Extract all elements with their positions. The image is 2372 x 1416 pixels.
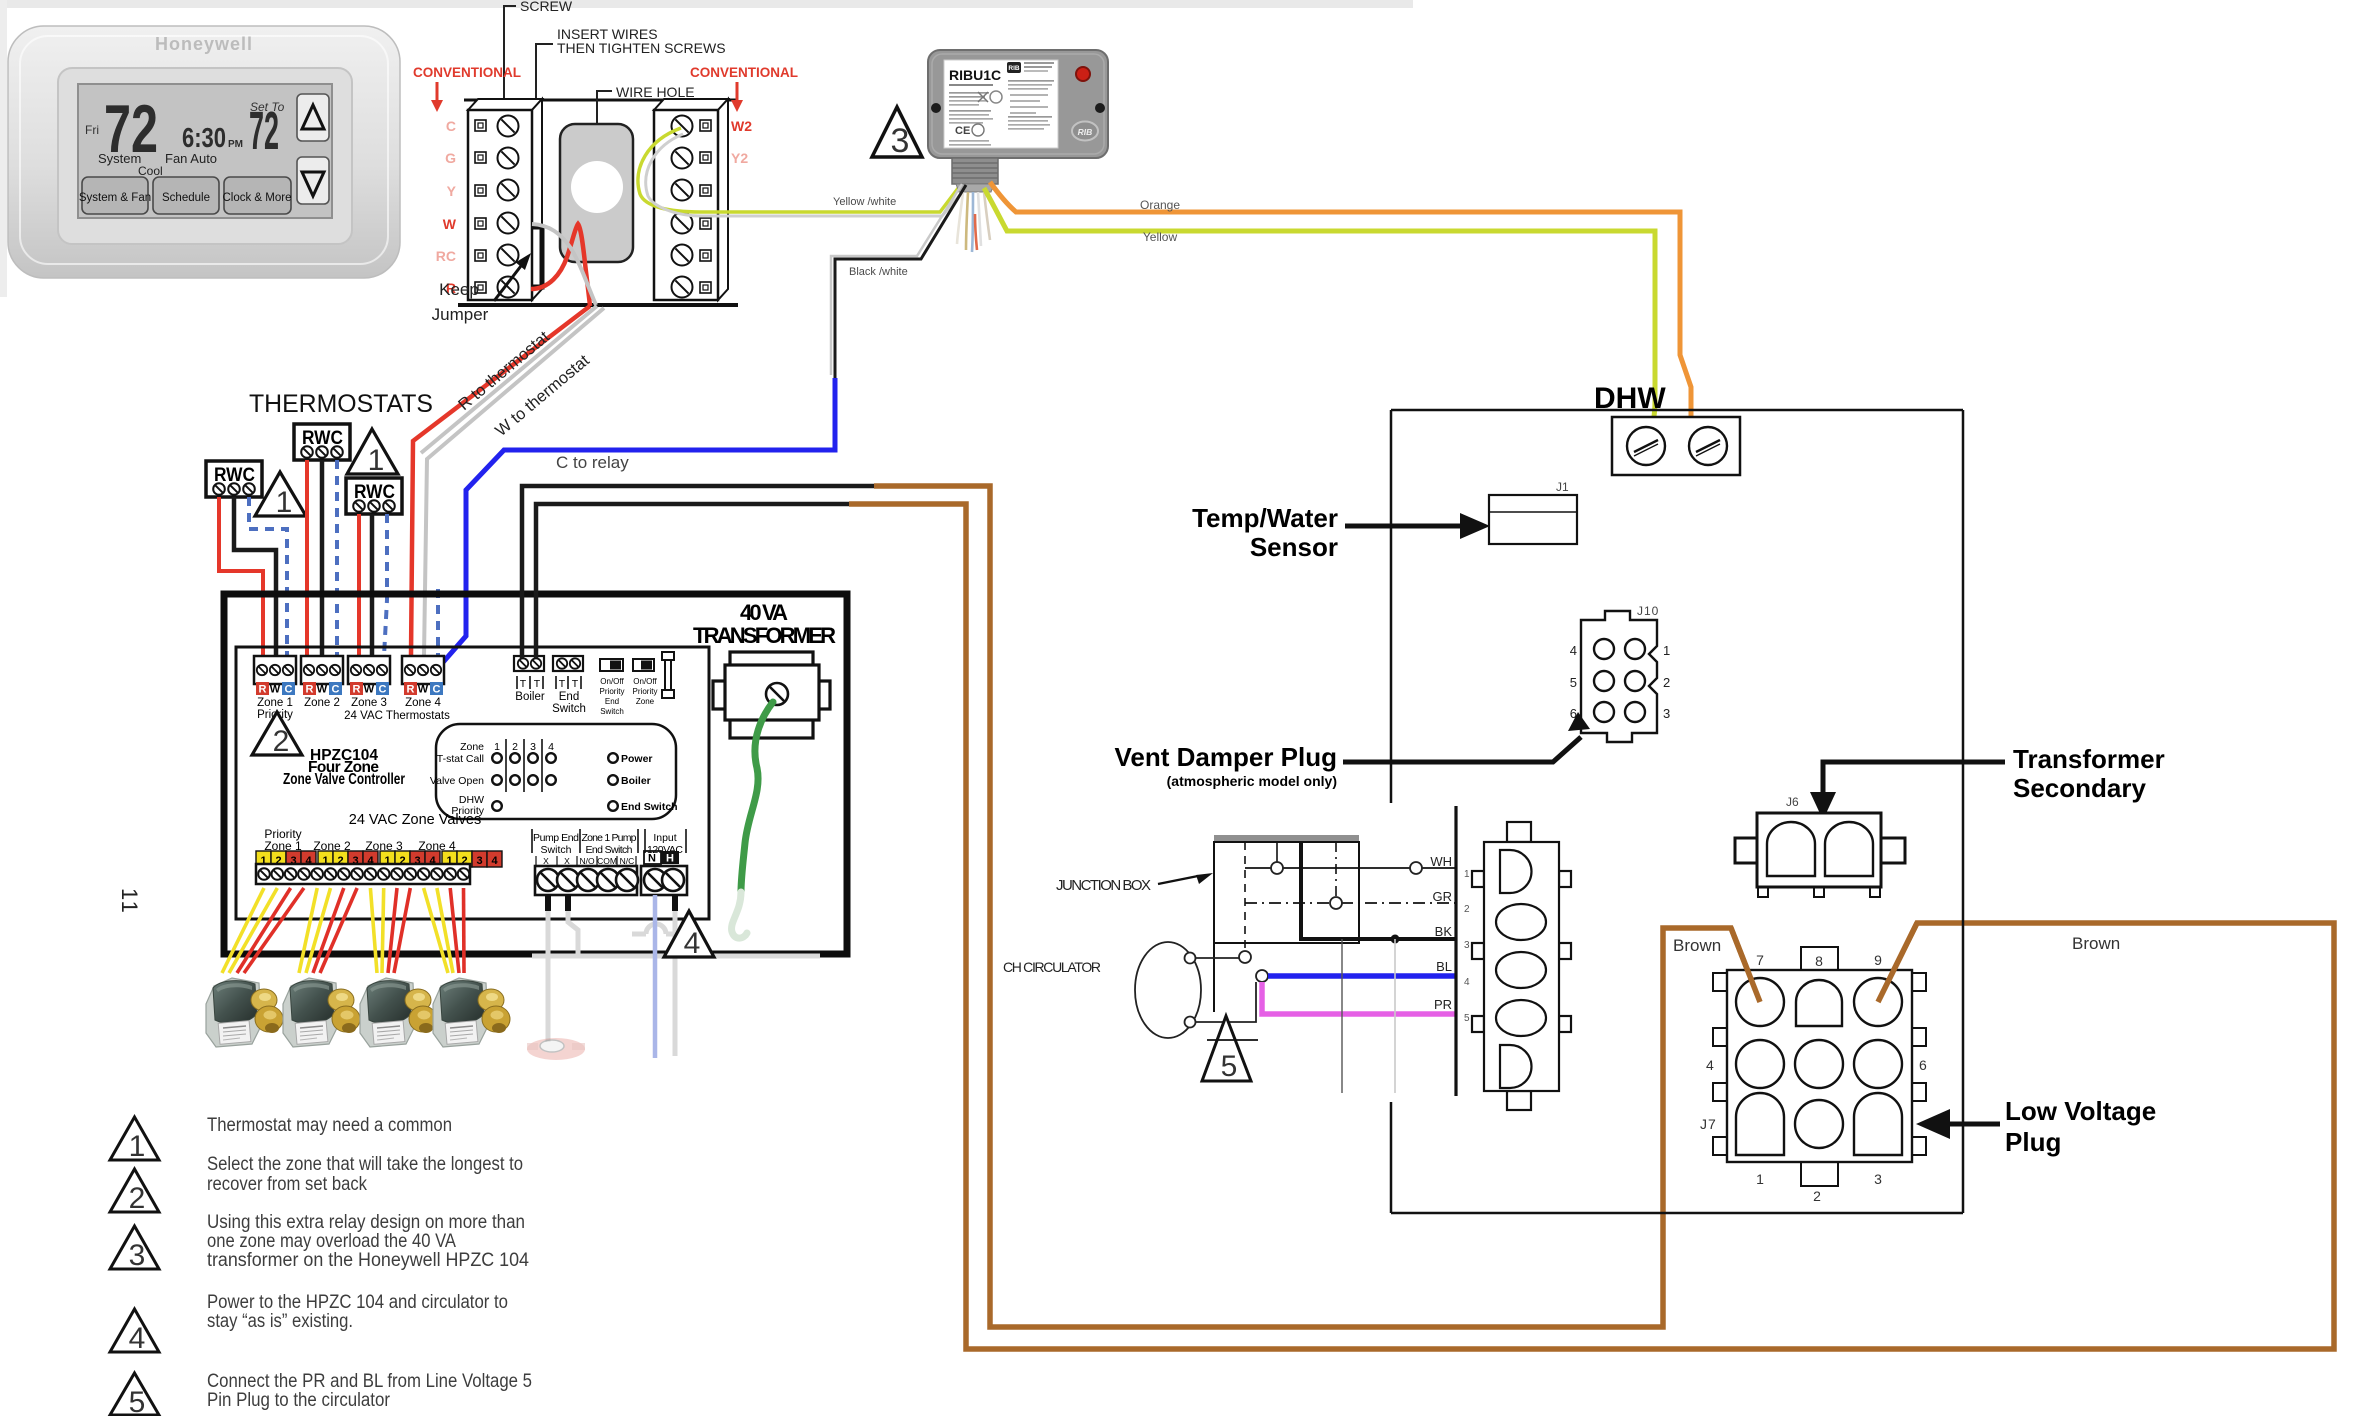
svg-text:Connect the PR and BL from Lin: Connect the PR and BL from Line Voltage … bbox=[207, 1371, 532, 1392]
svg-text:J6: J6 bbox=[1786, 795, 1799, 809]
svg-text:T-stat Call: T-stat Call bbox=[437, 753, 484, 765]
svg-text:1: 1 bbox=[1756, 1171, 1764, 1187]
svg-text:Zone 1: Zone 1 bbox=[257, 697, 293, 709]
svg-text:End Switch: End Switch bbox=[621, 801, 678, 813]
svg-text:Zone 4: Zone 4 bbox=[405, 697, 441, 709]
svg-text:3: 3 bbox=[129, 1239, 146, 1272]
svg-text:Transformer: Transformer bbox=[2013, 744, 2165, 774]
zone valve terminal number strip 1 bbox=[256, 851, 316, 867]
zone valve 2 (photo) bbox=[283, 978, 360, 1047]
R W C colored legend zone1 bbox=[256, 682, 295, 696]
svg-text:3: 3 bbox=[1663, 706, 1670, 721]
svg-text:RIBU1C: RIBU1C bbox=[949, 67, 1001, 83]
svg-text:N: N bbox=[648, 853, 656, 865]
svg-text:(atmospheric model only): (atmospheric model only) bbox=[1167, 773, 1337, 789]
wire BK thick bbox=[1301, 842, 1456, 939]
svg-text:C: C bbox=[433, 684, 441, 696]
low voltage plug J7 bbox=[1700, 947, 1927, 1204]
wire zone4 C blue dashed stub bbox=[436, 589, 440, 660]
green ground wire bbox=[741, 702, 773, 892]
svg-text:Zone: Zone bbox=[460, 741, 484, 753]
svg-text:Y2: Y2 bbox=[731, 150, 748, 166]
svg-text:5: 5 bbox=[1221, 1050, 1238, 1083]
T T Boiler labels bbox=[517, 676, 543, 689]
wire brown B to J7 pin 9 bbox=[849, 504, 2334, 1349]
svg-text:Priority: Priority bbox=[633, 687, 658, 696]
svg-text:Orange: Orange bbox=[1140, 198, 1180, 212]
svg-text:5: 5 bbox=[1570, 675, 1577, 690]
svg-text:WH: WH bbox=[1430, 854, 1452, 869]
svg-text:recover from set back: recover from set back bbox=[207, 1174, 367, 1195]
triangle note 1 legend bbox=[110, 1117, 159, 1160]
svg-text:N/O: N/O bbox=[579, 856, 595, 866]
relay RIBU1C body bbox=[928, 50, 1108, 158]
svg-text:CONVENTIONAL: CONVENTIONAL bbox=[690, 65, 798, 80]
svg-text:Power: Power bbox=[621, 753, 653, 765]
svg-text:3: 3 bbox=[530, 741, 536, 753]
zone valve 4 (photo) bbox=[433, 978, 510, 1047]
transformer TR1 symbol bbox=[713, 652, 830, 738]
svg-text:7: 7 bbox=[1756, 952, 1764, 968]
svg-text:2: 2 bbox=[273, 725, 290, 758]
svg-text:R: R bbox=[306, 684, 314, 696]
svg-text:Pin Plug to the circulator: Pin Plug to the circulator bbox=[207, 1390, 391, 1411]
svg-text:24 VAC Zone Valves: 24 VAC Zone Valves bbox=[349, 812, 481, 828]
zone valve 1 (photo) bbox=[206, 978, 283, 1047]
svg-text:Yellow /white: Yellow /white bbox=[833, 196, 896, 208]
svg-text:R: R bbox=[353, 684, 361, 696]
triangle note 3 (relay) bbox=[872, 107, 922, 157]
triangle note 5 (PR-BL) bbox=[1202, 1016, 1251, 1081]
HPZC104 outer enclosure box bbox=[224, 594, 847, 954]
svg-text:Select the zone that will take: Select the zone that will take the longe… bbox=[207, 1154, 523, 1175]
svg-text:one zone may overload the 40 V: one zone may overload the 40 VA bbox=[207, 1231, 456, 1252]
svg-text:4: 4 bbox=[129, 1322, 146, 1355]
wire brown A to J7 pin 7 bbox=[874, 486, 1760, 1327]
wire Yellow from relay to DHW bbox=[984, 188, 1655, 436]
zone valve terminal number strip 2 bbox=[318, 851, 378, 867]
svg-text:Thermostat may need a common: Thermostat may need a common bbox=[207, 1115, 452, 1136]
thermostat T-stat photo (Honeywell touchscreen) bbox=[8, 26, 400, 278]
svg-text:1: 1 bbox=[129, 1130, 146, 1163]
wire C to relay (blue) bbox=[438, 378, 835, 668]
wallplate bottom edge bbox=[458, 303, 738, 307]
svg-text:2: 2 bbox=[1464, 904, 1470, 915]
wire boiler TT to brown A (black portion) bbox=[522, 486, 874, 658]
svg-text:8: 8 bbox=[1815, 953, 1823, 969]
svg-text:Temp/Water: Temp/Water bbox=[1192, 503, 1338, 533]
priority zone slide switch SW2 bbox=[633, 659, 654, 671]
svg-text:3: 3 bbox=[476, 855, 482, 867]
faint circulator pump photo bbox=[527, 1038, 585, 1060]
svg-text:N/C: N/C bbox=[620, 856, 635, 866]
triangle note 2 legend bbox=[110, 1169, 159, 1212]
triangle note 2 (controller) bbox=[252, 712, 302, 755]
wire boiler TT to brown B (black portion) bbox=[536, 504, 849, 658]
svg-text:GR: GR bbox=[1433, 889, 1453, 904]
svg-text:3: 3 bbox=[1464, 940, 1470, 951]
svg-text:Black /white: Black /white bbox=[849, 266, 908, 278]
svg-text:2: 2 bbox=[1663, 675, 1670, 690]
wire WH bbox=[1245, 867, 1456, 869]
svg-text:6: 6 bbox=[1919, 1057, 1927, 1073]
svg-text:4: 4 bbox=[548, 741, 554, 753]
svg-text:RC: RC bbox=[436, 248, 456, 264]
svg-text:X: X bbox=[564, 856, 570, 866]
svg-text:BK: BK bbox=[1435, 924, 1453, 939]
svg-text:stay “as is” existing.: stay “as is” existing. bbox=[207, 1311, 353, 1332]
junction box bbox=[1214, 835, 1359, 1012]
svg-text:G: G bbox=[445, 150, 456, 166]
svg-text:C: C bbox=[446, 118, 456, 134]
svg-text:Secondary: Secondary bbox=[2013, 773, 2146, 803]
triangle note 1 (second) bbox=[347, 429, 398, 474]
thin verticals below BK bbox=[1341, 939, 1343, 1093]
svg-text:RIB: RIB bbox=[1008, 65, 1020, 72]
svg-text:Zone Valve Controller: Zone Valve Controller bbox=[283, 771, 405, 788]
svg-text:5: 5 bbox=[129, 1386, 146, 1416]
end switch T-T terminal block bbox=[553, 656, 583, 671]
existing lavender neutral wire bbox=[653, 895, 658, 1058]
svg-text:2: 2 bbox=[1813, 1188, 1821, 1204]
wire zone3 W black bbox=[370, 514, 375, 656]
pump end switch screw strip bbox=[535, 866, 638, 895]
svg-text:Switch: Switch bbox=[541, 844, 572, 856]
svg-text:Keep: Keep bbox=[439, 280, 479, 299]
svg-text:Pump End: Pump End bbox=[533, 832, 579, 844]
svg-text:Brown: Brown bbox=[1673, 936, 1721, 955]
svg-text:H: H bbox=[666, 853, 674, 865]
zone1 thermostat terminal block bbox=[254, 656, 296, 684]
svg-text:1: 1 bbox=[494, 741, 500, 753]
photo background band top bbox=[0, 0, 1413, 8]
pump end switch labels bbox=[532, 829, 686, 853]
svg-text:Y: Y bbox=[447, 183, 457, 199]
svg-text:3: 3 bbox=[891, 122, 910, 160]
wire PR magenta bbox=[1262, 982, 1456, 1014]
svg-text:9: 9 bbox=[1874, 952, 1882, 968]
svg-text:Fan Auto: Fan Auto bbox=[165, 151, 217, 166]
svg-text:Zone 1 Pump: Zone 1 Pump bbox=[582, 832, 637, 844]
svg-text:Boiler: Boiler bbox=[515, 691, 545, 703]
svg-text:Zone 3: Zone 3 bbox=[351, 697, 387, 709]
HPZC104 controller inner board bbox=[236, 647, 709, 919]
svg-text:Yellow: Yellow bbox=[1143, 230, 1178, 244]
input 120VAC screw strip bbox=[641, 866, 687, 895]
svg-text:T: T bbox=[534, 678, 541, 690]
wire Black/white pair from relay bbox=[835, 185, 966, 378]
svg-text:THEN TIGHTEN SCREWS: THEN TIGHTEN SCREWS bbox=[557, 40, 726, 56]
svg-text:Vent Damper Plug: Vent Damper Plug bbox=[1115, 742, 1338, 772]
svg-text:Power to the HPZC 104 and circ: Power to the HPZC 104 and circulator to bbox=[207, 1292, 508, 1313]
svg-text:End Switch: End Switch bbox=[586, 844, 633, 856]
svg-text:JUNCTION BOX: JUNCTION BOX bbox=[1056, 877, 1151, 894]
svg-text:Plug: Plug bbox=[2005, 1127, 2061, 1157]
svg-text:DHW: DHW bbox=[1594, 382, 1666, 415]
svg-text:RIB: RIB bbox=[1078, 127, 1093, 137]
wire W to thermostat (diagonal pair) bbox=[421, 306, 597, 453]
boiler T-T terminal block bbox=[514, 656, 544, 671]
wallplate top edge bbox=[464, 99, 738, 102]
svg-text:24 VAC Thermostats: 24 VAC Thermostats bbox=[344, 710, 450, 722]
triangle note 5 legend bbox=[110, 1373, 159, 1415]
svg-text:Zone: Zone bbox=[636, 697, 655, 706]
svg-text:6:30: 6:30 bbox=[182, 122, 226, 153]
svg-text:1: 1 bbox=[1663, 643, 1670, 658]
svg-text:R: R bbox=[259, 684, 267, 696]
wire zone1 R red bbox=[219, 497, 263, 656]
svg-text:W: W bbox=[317, 684, 328, 696]
5 pin line voltage plug bus bbox=[1454, 806, 1457, 1096]
svg-text:Low Voltage: Low Voltage bbox=[2005, 1096, 2156, 1126]
svg-text:W2: W2 bbox=[731, 118, 752, 134]
svg-text:W: W bbox=[443, 216, 457, 232]
svg-text:1: 1 bbox=[276, 486, 293, 519]
wire zone2 W black bbox=[320, 460, 325, 656]
svg-text:WIRE HOLE: WIRE HOLE bbox=[616, 84, 695, 100]
svg-text:C: C bbox=[332, 684, 340, 696]
zone valve terminal number strip 4 bbox=[442, 851, 502, 867]
svg-text:1: 1 bbox=[368, 444, 385, 477]
svg-text:T: T bbox=[520, 678, 527, 690]
svg-text:SCREW: SCREW bbox=[520, 0, 573, 14]
svg-text:On/Off: On/Off bbox=[633, 677, 657, 686]
svg-text:3: 3 bbox=[1874, 1171, 1882, 1187]
triangle note 3 legend bbox=[110, 1226, 159, 1269]
wire zone2 C blue dashed bbox=[335, 460, 339, 656]
svg-text:PR: PR bbox=[1434, 997, 1452, 1012]
connector J6 (transformer secondary) bbox=[1735, 795, 1905, 897]
DHW boiler enclosure box bbox=[1391, 410, 1963, 1213]
fuse F1 bbox=[662, 652, 674, 698]
svg-text:End: End bbox=[559, 691, 579, 703]
svg-text:W: W bbox=[364, 684, 375, 696]
connector J10 (vent damper) bbox=[1570, 604, 1670, 742]
R W C colored legend zone3 bbox=[350, 682, 389, 696]
wire W grey loop at wallplate bbox=[532, 224, 596, 305]
wire Orange from relay to DHW bbox=[990, 182, 1705, 437]
wire hole opening bbox=[571, 161, 623, 213]
valve zone wires red/yellow bbox=[222, 888, 464, 973]
svg-text:72: 72 bbox=[249, 101, 279, 161]
wire zone3 R red bbox=[357, 514, 361, 656]
wire zone3 C blue dashed bbox=[384, 514, 387, 656]
svg-text:5: 5 bbox=[1464, 1013, 1470, 1024]
wire hole grey plate bbox=[560, 124, 633, 262]
svg-text:Honeywell: Honeywell bbox=[155, 34, 253, 54]
triangle note 1 (first) bbox=[255, 472, 306, 516]
svg-text:System: System bbox=[98, 151, 141, 166]
svg-text:W: W bbox=[270, 684, 281, 696]
svg-text:J7: J7 bbox=[1700, 1116, 1717, 1132]
wire R to thermostat (diagonal) bbox=[411, 306, 590, 656]
svg-text:11: 11 bbox=[117, 888, 142, 915]
wire brown tail into J7 pin 7 bbox=[1731, 928, 1760, 1002]
photo background band left bbox=[0, 0, 7, 297]
wire zone1 C blue dashed bbox=[249, 497, 287, 656]
svg-text:C to relay: C to relay bbox=[556, 453, 629, 472]
wire Yellow/white pair wallplate to relay bbox=[638, 128, 962, 212]
T T End Switch labels bbox=[556, 676, 581, 689]
wire zone2 R red bbox=[305, 460, 309, 656]
svg-text:CH CIRCULATOR: CH CIRCULATOR bbox=[1003, 959, 1101, 975]
zone4 thermostat terminal block bbox=[402, 656, 444, 684]
R W C colored legend zone2 bbox=[303, 682, 342, 696]
CH circulator bbox=[1135, 942, 1201, 1038]
svg-text:C: C bbox=[379, 684, 387, 696]
svg-text:J1: J1 bbox=[1556, 480, 1569, 494]
svg-text:4: 4 bbox=[684, 927, 701, 960]
svg-text:4: 4 bbox=[491, 855, 498, 867]
svg-text:40 VA: 40 VA bbox=[740, 600, 788, 625]
svg-text:Switch: Switch bbox=[552, 703, 586, 715]
svg-text:Fri: Fri bbox=[85, 123, 99, 137]
svg-text:CE: CE bbox=[955, 125, 970, 137]
thermostat terminal box TS2 (R W C) bbox=[294, 424, 350, 460]
zone valve 3 (photo) bbox=[360, 978, 437, 1047]
keep jumper bracket on RC-R bbox=[533, 227, 542, 287]
svg-text:T: T bbox=[572, 678, 579, 690]
svg-text:Schedule: Schedule bbox=[162, 192, 210, 204]
svg-text:Input: Input bbox=[653, 832, 676, 844]
left terminal strip TB1 bbox=[468, 99, 542, 300]
svg-text:Zone 2: Zone 2 bbox=[304, 697, 340, 709]
svg-text:T: T bbox=[559, 678, 566, 690]
svg-text:1: 1 bbox=[1464, 869, 1470, 880]
svg-text:Jumper: Jumper bbox=[432, 305, 489, 324]
svg-text:COM: COM bbox=[597, 856, 617, 866]
svg-text:Using this extra relay design: Using this extra relay design on more th… bbox=[207, 1212, 525, 1233]
wire R jumper loop at wallplate bbox=[531, 224, 590, 306]
svg-text:2: 2 bbox=[129, 1182, 146, 1215]
wire GR dash-dot bbox=[1245, 902, 1456, 904]
svg-text:CONVENTIONAL: CONVENTIONAL bbox=[413, 65, 521, 80]
svg-text:BL: BL bbox=[1436, 959, 1452, 974]
right terminal strip TB2 bbox=[654, 99, 728, 300]
svg-text:4: 4 bbox=[1570, 643, 1577, 658]
priority end switch slide switch SW1 bbox=[600, 659, 623, 671]
zone2 thermostat terminal block bbox=[301, 656, 343, 684]
svg-text:J10: J10 bbox=[1637, 604, 1659, 618]
connector J1 (temp/water sensor) bbox=[1489, 480, 1577, 544]
svg-text:Switch: Switch bbox=[600, 707, 624, 716]
svg-text:TRANSFORMER: TRANSFORMER bbox=[693, 623, 836, 648]
zone3 thermostat terminal block bbox=[348, 656, 390, 684]
svg-text:R: R bbox=[407, 684, 415, 696]
svg-text:2: 2 bbox=[512, 741, 518, 753]
svg-text:4: 4 bbox=[1464, 977, 1470, 988]
svg-text:PM: PM bbox=[228, 139, 243, 150]
triangle note 4 (power as-is) bbox=[664, 911, 714, 957]
LED status panel bbox=[430, 724, 678, 819]
thermostat terminal box TS3 (R W C) bbox=[346, 478, 402, 514]
svg-text:Brown: Brown bbox=[2072, 934, 2120, 953]
svg-text:On/Off: On/Off bbox=[600, 677, 624, 686]
svg-text:Valve Open: Valve Open bbox=[430, 775, 484, 787]
svg-text:Clock & More: Clock & More bbox=[222, 192, 291, 204]
svg-text:transformer on the Honeywell H: transformer on the Honeywell HPZC 104 bbox=[207, 1250, 529, 1271]
circulator wires bbox=[1196, 957, 1239, 959]
relay wire bundle bbox=[957, 192, 990, 252]
wire brown tail into J7 pin 9 bbox=[1878, 923, 1917, 1002]
R W C colored legend zone4 bbox=[404, 682, 443, 696]
svg-text:Boiler: Boiler bbox=[621, 775, 651, 787]
svg-text:X: X bbox=[543, 856, 549, 866]
zone valve screw terminal strip bbox=[256, 864, 470, 884]
triangle note 4 legend bbox=[110, 1309, 159, 1352]
svg-text:End: End bbox=[605, 697, 619, 706]
svg-text:System & Fan: System & Fan bbox=[79, 192, 151, 204]
DHW element terminal block bbox=[1612, 417, 1740, 475]
svg-text:THERMOSTATS: THERMOSTATS bbox=[249, 390, 433, 418]
svg-text:W: W bbox=[418, 684, 429, 696]
zone valve terminal number strip 3 bbox=[380, 851, 440, 867]
relay threaded nipple bbox=[952, 158, 998, 192]
5 pin line voltage plug connector bbox=[1472, 822, 1571, 1110]
black wire stubs under pump terminals bbox=[548, 895, 675, 911]
wire BL blue bbox=[1268, 973, 1456, 979]
existing grey wiring (stay as-is) bbox=[532, 911, 820, 1056]
thermostat terminal box TS1 (R W C) bbox=[206, 461, 262, 497]
svg-text:4: 4 bbox=[1706, 1057, 1714, 1073]
svg-text:Priority: Priority bbox=[600, 687, 625, 696]
wire zone1 W black bbox=[234, 497, 276, 656]
svg-text:Sensor: Sensor bbox=[1250, 532, 1338, 562]
svg-text:Cool: Cool bbox=[138, 164, 163, 178]
ground screw for green wire bbox=[766, 683, 788, 705]
svg-text:C: C bbox=[285, 684, 293, 696]
